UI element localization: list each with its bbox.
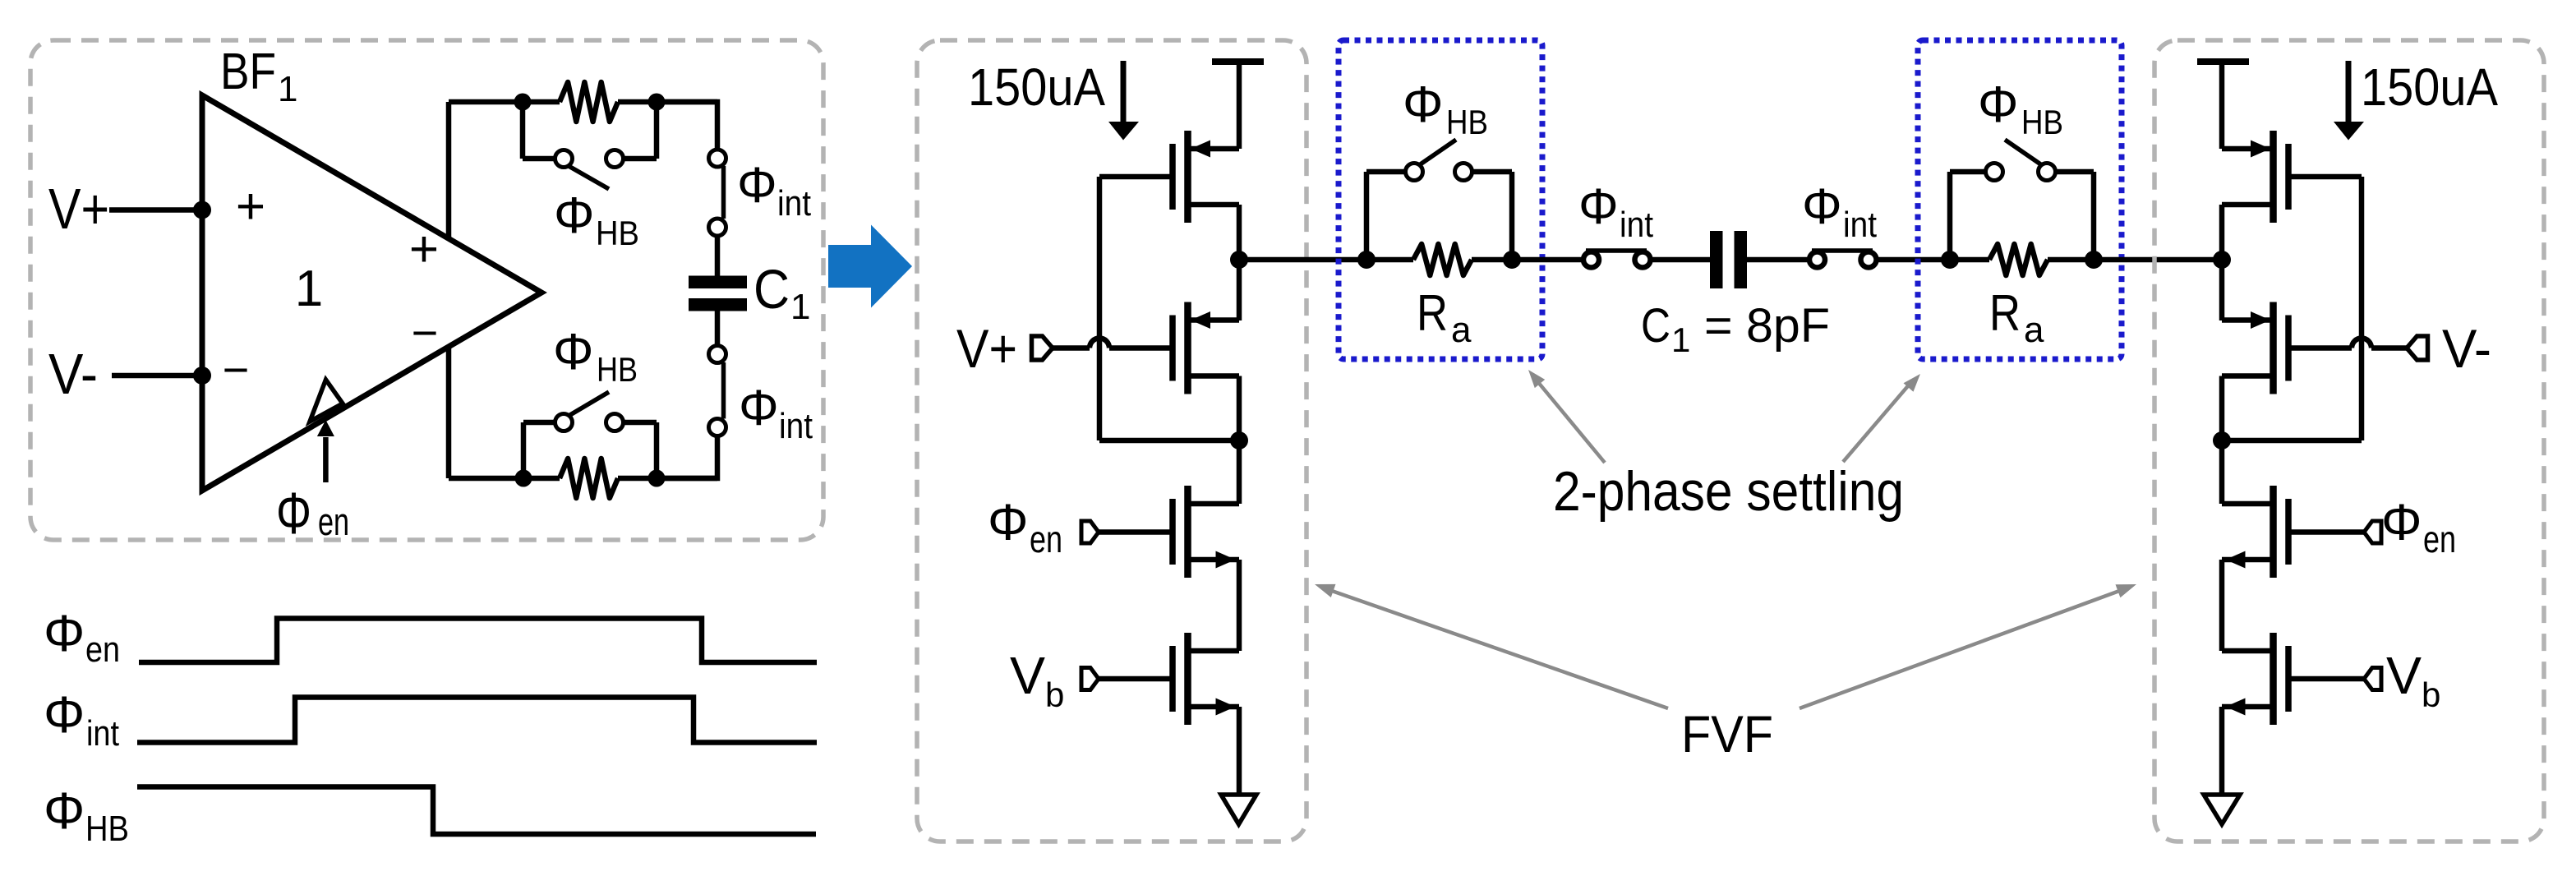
svg-text:Φ: Φ	[1403, 76, 1443, 133]
wire M1R drain to output node	[2219, 205, 2225, 320]
svg-text:en: en	[2423, 518, 2456, 560]
blue dotted box: Ra network left	[1339, 40, 1542, 359]
wire feedback bottom rail	[449, 476, 560, 482]
wire M3R to M4R	[2219, 560, 2225, 651]
node FVF-left lower	[1230, 431, 1248, 450]
svg-text:Φ: Φ	[1978, 76, 2018, 133]
port Vb right	[2364, 668, 2381, 690]
svg-text:int: int	[779, 406, 813, 446]
svg-text:−: −	[223, 343, 250, 395]
svg-text:b: b	[2422, 675, 2440, 714]
node top rail right dot	[648, 94, 666, 111]
switch Phi_int top (series, vertical)	[709, 150, 726, 167]
svg-text:HB: HB	[597, 350, 638, 389]
wire M1 drain to output node	[1237, 205, 1242, 320]
svg-text:1: 1	[278, 69, 297, 109]
switch Phi_HB bottom (parallel)	[521, 422, 527, 478]
wire M2R source to lower node	[2219, 376, 2225, 441]
wire Ra to Phi_int switch	[1512, 257, 1583, 263]
svg-text:V: V	[1010, 646, 1045, 705]
wire gate bus left	[1097, 177, 1103, 440]
transistor M4 right (bias NMOS-style)	[2285, 646, 2292, 712]
svg-text:a: a	[1451, 310, 1472, 350]
port Phi_en right	[2364, 521, 2381, 543]
svg-text:int: int	[86, 713, 119, 754]
svg-text:R: R	[1989, 285, 2021, 342]
ground right	[2204, 795, 2240, 824]
wire switch to C1 top	[715, 236, 721, 276]
wire Phi_en port to gate	[1099, 529, 1173, 535]
wire feedback top rail	[449, 99, 560, 105]
svg-text:int: int	[777, 183, 811, 224]
svg-text:int: int	[1620, 205, 1653, 245]
transistor M1 right (top PMOS-style)	[2285, 144, 2292, 210]
svg-text:Φ: Φ	[276, 482, 311, 546]
node Ra-left left dot	[1357, 251, 1376, 269]
svg-text:Φ: Φ	[44, 782, 85, 840]
svg-text:−: −	[412, 307, 439, 358]
wire M1 gate lead	[1099, 174, 1173, 180]
port Vb left	[1081, 668, 1099, 690]
transistor M3 left (enable NMOS-style)	[1169, 499, 1176, 565]
node Ra-right right dot	[2085, 251, 2103, 269]
transistor M3 right (enable NMOS-style)	[2285, 499, 2292, 565]
node bottom rail left dot	[515, 470, 532, 487]
wire V+ to hop	[1053, 345, 1090, 351]
node bottom rail right dot	[648, 470, 666, 487]
wire Phi_en port to gate right	[2288, 529, 2364, 535]
switch Phi_int bottom (series, vertical)	[709, 346, 726, 363]
wire bus to lower node right	[2222, 438, 2362, 444]
wire output to Ra network	[1239, 257, 1366, 263]
dashed box: left FVF cell	[917, 40, 1306, 841]
resistor top feedback	[560, 82, 618, 122]
dashed box: right FVF cell	[2154, 40, 2544, 841]
svg-text:= 8pF: = 8pF	[1704, 299, 1830, 353]
node Ra-right left dot	[1941, 251, 1959, 269]
wire hop to M2 gate	[1109, 345, 1173, 351]
wire Vb port to gate right	[2288, 676, 2364, 682]
wire Ra to right FVF output	[2094, 257, 2222, 263]
wire C1 bottom to switch	[715, 311, 721, 347]
svg-text:Φ: Φ	[553, 324, 593, 380]
wire C1 to switch	[1747, 257, 1809, 263]
wire M4 to ground	[1237, 707, 1242, 795]
wire M1R gate lead	[2288, 174, 2362, 180]
op-amp U1 (unity-gain buffer triangle)	[202, 95, 541, 491]
transistor M2 right (input PMOS-style)	[2285, 316, 2292, 381]
arrow 150uA current right	[2346, 61, 2352, 123]
svg-text:Φ: Φ	[739, 380, 779, 436]
svg-text:V+: V+	[956, 318, 1017, 379]
waveform Phi_HB	[137, 787, 816, 835]
arrow Phi_en enable	[323, 437, 329, 482]
wire hop over bus	[1090, 339, 1109, 348]
svg-text:R: R	[1417, 285, 1448, 342]
wire V- input	[112, 373, 202, 379]
svg-text:1: 1	[790, 287, 810, 327]
resistor bottom feedback	[560, 459, 618, 498]
svg-text:C: C	[753, 259, 790, 320]
svg-text:Φ: Φ	[44, 686, 85, 744]
wire lower node to M3R	[2219, 440, 2225, 504]
arrow annotation to FVF right	[1800, 590, 2122, 708]
svg-text:HB: HB	[2021, 103, 2063, 141]
svg-text:Φ: Φ	[2381, 495, 2422, 551]
svg-text:2-phase settling: 2-phase settling	[1553, 460, 1904, 523]
svg-text:V-: V-	[2442, 318, 2491, 379]
switch Phi_int series right	[1809, 252, 1825, 268]
outer dashed box: BF1 buffer cell	[30, 40, 823, 540]
svg-text:+: +	[409, 221, 439, 278]
wire M3 to M4	[1237, 560, 1242, 651]
big blue arrow	[828, 225, 912, 308]
arrow annotation to FVF left	[1329, 590, 1668, 708]
arrow annotation to Ra left	[1537, 381, 1605, 463]
arrow annotation to Ra right	[1843, 382, 1911, 462]
waveform Phi_en	[139, 619, 817, 663]
power VDD rail left	[1212, 58, 1264, 65]
svg-text:150uA: 150uA	[968, 58, 1105, 117]
wire switch to bottom rail	[657, 436, 717, 479]
port Phi_en left	[1081, 521, 1099, 543]
arrow 150uA current left	[1121, 61, 1127, 123]
node Ra-left right dot	[1503, 251, 1521, 269]
svg-text:BF: BF	[220, 44, 276, 100]
node V- junction dot	[193, 367, 211, 385]
svg-text:HB: HB	[1446, 103, 1488, 141]
svg-text:Φ: Φ	[1802, 178, 1842, 234]
svg-text:1: 1	[1671, 320, 1690, 359]
wire top-right corner to Phi_int switch	[657, 102, 717, 150]
port V+ input left	[1032, 336, 1053, 360]
wire switch to C1	[1651, 257, 1711, 263]
node V+ junction dot	[193, 201, 211, 219]
wire hop to M2R gate	[2288, 345, 2352, 351]
svg-text:Φ: Φ	[1578, 178, 1619, 234]
node FVF-left output	[1230, 251, 1248, 269]
wire gate bus right	[2359, 177, 2365, 440]
enable triangle marker on buffer	[310, 380, 343, 422]
svg-text:HB: HB	[85, 809, 129, 849]
wire V+ input	[109, 207, 202, 213]
wire bus to lower node	[1099, 438, 1239, 444]
wire V- to hop	[2371, 345, 2407, 351]
svg-text:+: +	[236, 178, 265, 235]
svg-text:HB: HB	[596, 214, 639, 252]
resistor Ra left	[1366, 257, 1413, 263]
svg-text:a: a	[2024, 310, 2044, 350]
svg-text:en: en	[318, 500, 349, 543]
wire hop over bus right	[2352, 339, 2371, 348]
ground left	[1221, 795, 1256, 824]
switch Phi_HB top (parallel)	[520, 102, 526, 159]
wire lower node to M3	[1237, 440, 1242, 504]
power VDD rail right	[2197, 58, 2249, 65]
svg-text:150uA: 150uA	[2361, 58, 2498, 117]
svg-text:Φ: Φ	[554, 187, 594, 244]
svg-text:Φ: Φ	[737, 157, 777, 213]
switch Phi_HB right (parallel with Ra)	[1947, 172, 1953, 260]
port V- input right	[2407, 336, 2428, 360]
svg-text:V: V	[2386, 646, 2422, 705]
svg-text:Φ: Φ	[44, 605, 85, 662]
svg-text:en: en	[85, 629, 120, 670]
wire feedback top tap	[446, 102, 452, 238]
capacitor C1 = 8pF	[1710, 231, 1723, 288]
svg-text:Φ: Φ	[988, 495, 1028, 551]
node FVF-right lower	[2213, 431, 2231, 450]
transistor M1 left (top PMOS-style)	[1169, 144, 1176, 210]
svg-text:b: b	[1045, 675, 1064, 714]
wire switch to Ra right	[1877, 257, 1951, 263]
svg-text:int: int	[1843, 205, 1877, 245]
switch Phi_int series left	[1583, 252, 1599, 268]
svg-text:FVF: FVF	[1681, 706, 1773, 763]
wire M2 source to lower node	[1237, 376, 1242, 441]
node top rail left dot	[514, 94, 532, 111]
transistor M2 left (input PMOS-style)	[1169, 316, 1176, 381]
wire M4R to ground	[2219, 707, 2225, 795]
blue dotted box: Ra network right	[1918, 40, 2122, 359]
wire feedback bottom tap	[446, 347, 452, 478]
wire Vb port to gate	[1099, 676, 1173, 682]
svg-text:C: C	[1641, 299, 1670, 353]
node FVF-right output	[2213, 251, 2231, 269]
transistor M4 left (bias NMOS-style)	[1169, 646, 1176, 712]
svg-text:en: en	[1030, 518, 1062, 560]
svg-text:V-: V-	[48, 342, 98, 406]
resistor Ra right	[1950, 257, 1989, 263]
waveform Phi_int	[137, 698, 817, 743]
switch Phi_HB left (parallel with Ra)	[1364, 172, 1370, 260]
svg-text:1: 1	[295, 260, 323, 317]
svg-text:V+: V+	[48, 177, 109, 241]
capacitor C1	[689, 276, 747, 289]
